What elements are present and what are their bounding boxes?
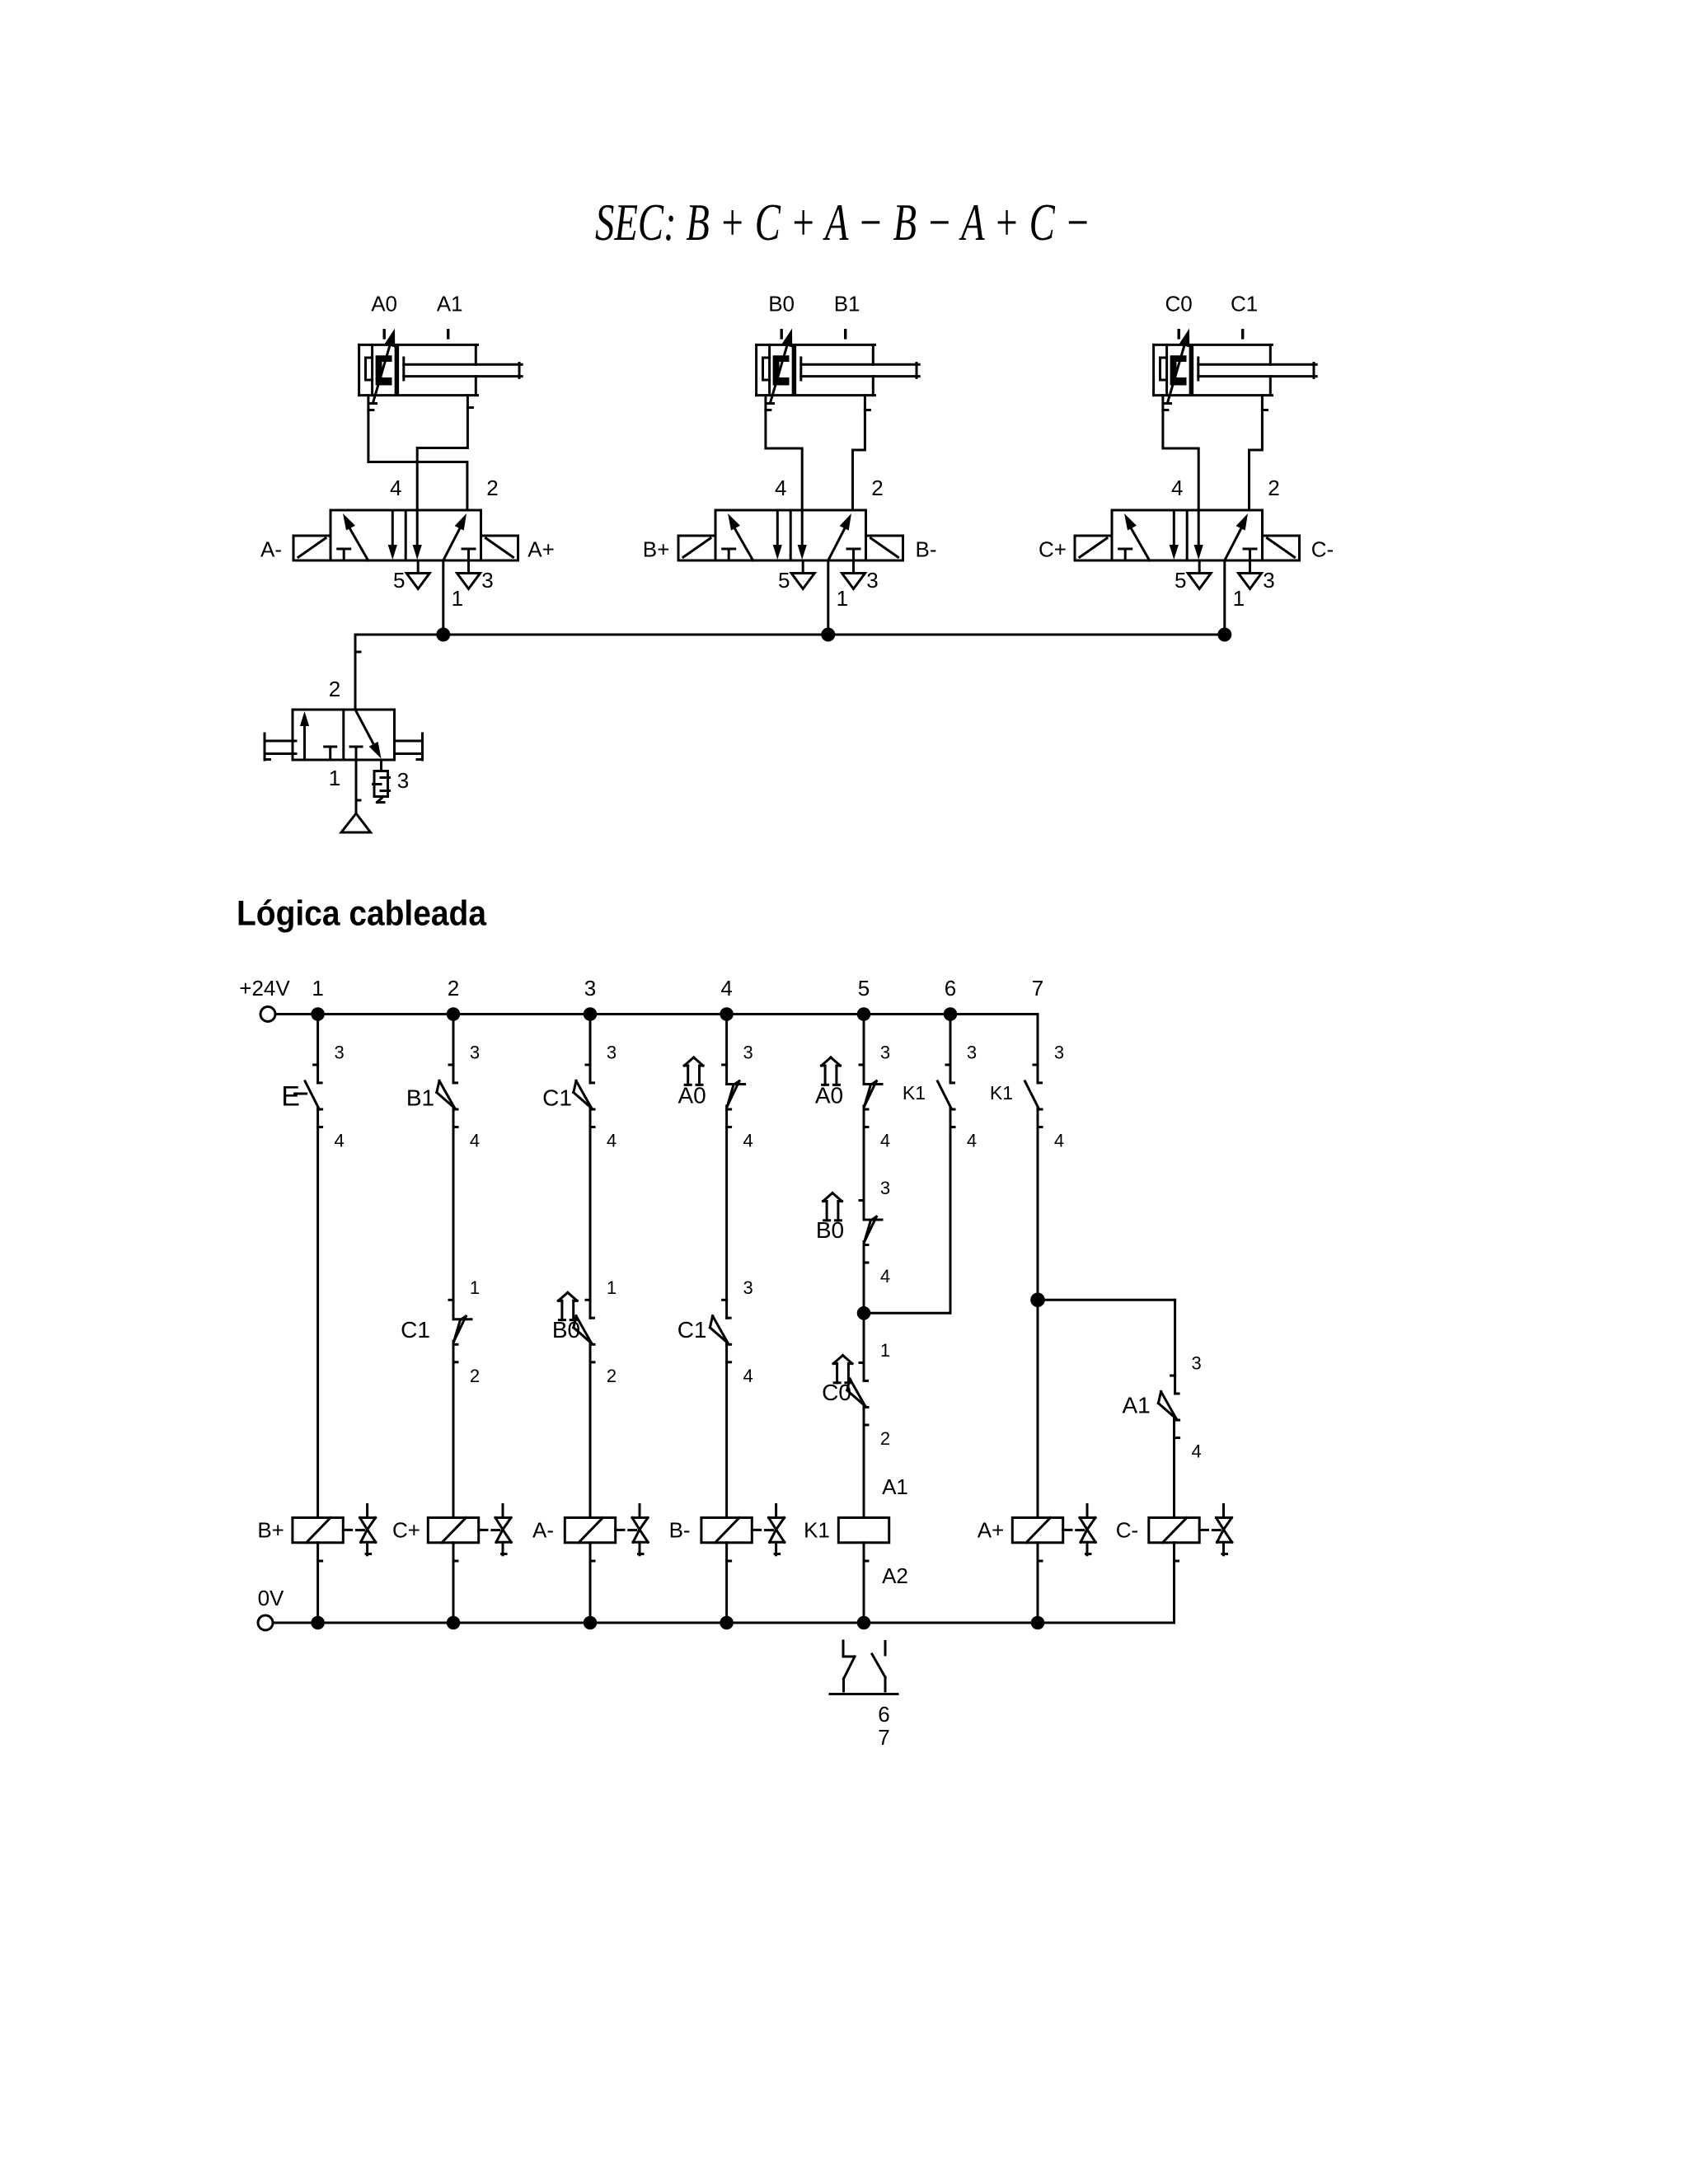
contact B1 normally open xyxy=(437,1065,457,1127)
valve VC left pilot C+ xyxy=(1075,536,1112,560)
valve VB exhaust port 3 xyxy=(842,560,865,589)
svg-text:B1: B1 xyxy=(834,292,860,316)
svg-text:1: 1 xyxy=(329,766,340,790)
coil C+ valve solenoid wire to 0V xyxy=(452,1543,455,1623)
valve VA left box exhaust arrow xyxy=(388,510,397,560)
wire rung 4 middle xyxy=(725,1106,728,1318)
valve VA right pilot A+ xyxy=(481,536,518,560)
sensor mark A0 xyxy=(383,330,386,338)
svg-text:3: 3 xyxy=(1191,1353,1201,1374)
svg-text:2: 2 xyxy=(871,476,883,500)
junction node rung 1 on 0V rail xyxy=(311,1616,325,1630)
junction node rung 7 on 0V rail xyxy=(1031,1616,1045,1630)
sensor mark B0 xyxy=(781,330,783,338)
wire rung 5 segment 2 xyxy=(863,1106,865,1220)
svg-text:B0: B0 xyxy=(768,292,795,316)
cylinder B magnetic piston xyxy=(773,355,790,385)
contact A1 normally open xyxy=(1158,1376,1179,1438)
coil A- valve solenoid wire to 0V xyxy=(589,1543,592,1623)
junction node valve VB port 1 xyxy=(821,628,835,642)
svg-text:4: 4 xyxy=(1171,476,1183,500)
valve VA left pilot A- xyxy=(293,536,331,560)
svg-text:1: 1 xyxy=(607,1277,617,1298)
junction node rung 1 on +24V rail xyxy=(311,1007,325,1021)
svg-text:1: 1 xyxy=(837,586,848,611)
contact C1 normally closed terminal numbers xyxy=(470,1277,480,1386)
svg-text:B0: B0 xyxy=(816,1217,844,1243)
contact A1 normally open terminal numbers xyxy=(1191,1353,1201,1462)
svg-text:B-: B- xyxy=(916,537,937,562)
junction node rung 5 and 6 xyxy=(857,1306,871,1320)
wire rung 5 upper xyxy=(863,1015,865,1085)
cylinder C magnetic piston xyxy=(1170,355,1187,385)
valve VC right box flow 1 to 2 arrow xyxy=(1225,513,1248,560)
coil A+ valve solenoid wire to 0V xyxy=(1037,1543,1039,1623)
svg-text:C1: C1 xyxy=(678,1317,707,1343)
coil C- valve solenoid wire to 0V xyxy=(1173,1543,1175,1623)
wire rung 5 lower xyxy=(863,1406,865,1517)
wire rung 7 upper xyxy=(1037,1015,1039,1083)
svg-text:3: 3 xyxy=(470,1043,480,1063)
coil B+ valve solenoid wire to 0V xyxy=(316,1543,319,1623)
svg-text:6: 6 xyxy=(878,1702,889,1727)
wire branch rung 7 to A1 xyxy=(1038,1300,1175,1394)
svg-text:2: 2 xyxy=(1268,476,1279,500)
svg-text:7: 7 xyxy=(878,1725,889,1750)
wire rung 3 middle xyxy=(589,1108,592,1319)
cylinder C adjustable cushioning arrow xyxy=(1165,329,1190,404)
svg-text:4: 4 xyxy=(720,976,732,1001)
valve VB left box flow arrow xyxy=(728,513,753,560)
contact K1 relay rung 6 terminal numbers xyxy=(967,1043,977,1151)
contact B0 normally closed actuated xyxy=(574,1300,594,1362)
svg-text:A0: A0 xyxy=(815,1083,843,1108)
coil C- valve solenoid xyxy=(1149,1518,1199,1562)
svg-text:1: 1 xyxy=(312,976,323,1001)
svg-text:4: 4 xyxy=(880,1266,890,1286)
valve VB right box port 3 blocked xyxy=(847,549,860,560)
valve V0 right box flow 2 to 3 arrow xyxy=(355,710,382,759)
contact K1 relay rung 7 xyxy=(1025,1065,1043,1127)
svg-text:A1: A1 xyxy=(882,1474,908,1499)
valve VB left box port blocked xyxy=(723,549,735,560)
svg-text:4: 4 xyxy=(775,476,786,500)
wire rung 1 upper xyxy=(316,1015,319,1083)
valve VC right box port 3 blocked xyxy=(1244,549,1256,560)
svg-text:0V: 0V xyxy=(258,1586,284,1610)
svg-text:C1: C1 xyxy=(401,1317,430,1343)
valve VB port labels xyxy=(775,476,884,611)
junction node rung 7 branch xyxy=(1030,1292,1045,1307)
valve V0 left box flow 1 to 2 arrow xyxy=(300,711,309,759)
svg-text:A0: A0 xyxy=(678,1083,706,1108)
svg-text:5: 5 xyxy=(778,568,790,593)
svg-text:3: 3 xyxy=(607,1043,617,1063)
valve VA exhaust port 3 xyxy=(457,560,481,589)
valve VB right box flow 1 to 2 arrow xyxy=(828,513,851,560)
svg-text:3: 3 xyxy=(397,768,409,793)
valve VA left box flow arrow xyxy=(343,513,368,560)
coil B+ valve solenoid xyxy=(293,1518,343,1562)
valve V0 3/2 supply body xyxy=(293,710,395,760)
junction node rung 3 on 0V rail xyxy=(584,1616,598,1630)
wire supply manifold xyxy=(355,635,1225,710)
valve VC left box exhaust arrow xyxy=(1170,510,1179,560)
wire cylinder C left port to valve VC port 4 xyxy=(1163,396,1198,510)
contact K1 relay rung 7 terminal numbers xyxy=(1054,1043,1064,1151)
svg-text:1: 1 xyxy=(880,1340,890,1361)
contact A0 normally open actuated actuated arrow xyxy=(684,1057,703,1085)
wire rung 1 lower xyxy=(316,1108,319,1518)
contact A0 normally open actuated terminal numbers xyxy=(743,1043,753,1151)
valve V0 port 1 air supply xyxy=(341,760,371,832)
cylinder A piston and rod xyxy=(396,347,522,395)
contact C1 normally closed xyxy=(449,1300,471,1362)
contact B0 normally open actuated rung 5 xyxy=(860,1201,882,1263)
svg-text:A+: A+ xyxy=(978,1518,1005,1543)
svg-text:A1: A1 xyxy=(1122,1393,1150,1418)
svg-text:C1: C1 xyxy=(1231,292,1258,316)
svg-text:5: 5 xyxy=(858,976,870,1001)
valve VA left box port blocked xyxy=(338,549,350,560)
svg-text:2: 2 xyxy=(329,677,340,701)
wire valve VA port 1 down xyxy=(442,560,444,635)
valve VC left box flow arrow xyxy=(1124,513,1150,560)
svg-text:2: 2 xyxy=(448,976,459,1001)
contact C1 normally open released terminal numbers xyxy=(743,1277,753,1386)
wire valve VB port 1 down xyxy=(827,560,829,635)
svg-text:C0: C0 xyxy=(1165,292,1192,316)
contact B0 normally closed actuated terminal numbers xyxy=(607,1277,617,1386)
svg-text:5: 5 xyxy=(393,568,405,593)
contact A0 normally open actuated rung 5 actuated arrow xyxy=(822,1057,841,1085)
valve VB body 5/2 xyxy=(715,510,866,560)
svg-text:4: 4 xyxy=(1191,1441,1201,1462)
relay K1 contact reference NC xyxy=(843,1641,855,1691)
contact C1 normally open released xyxy=(710,1300,730,1362)
junction node valve VC port 1 xyxy=(1217,628,1231,642)
svg-text:4: 4 xyxy=(334,1131,344,1151)
cylinder B adjustable cushioning arrow xyxy=(768,329,793,404)
junction node rung 4 on +24V rail xyxy=(720,1007,734,1021)
relay coil K1 wire to 0V xyxy=(863,1543,865,1623)
contact E emergency switch terminal numbers xyxy=(334,1043,344,1151)
valve VC port labels xyxy=(1171,476,1280,611)
valve VB right pilot B- xyxy=(866,536,903,560)
svg-text:B-: B- xyxy=(669,1518,691,1543)
svg-text:2: 2 xyxy=(470,1366,480,1386)
contact E emergency switch xyxy=(305,1065,322,1127)
valve VC left box port blocked xyxy=(1119,549,1132,560)
cylinder A body xyxy=(359,344,478,395)
wire rung 6 upper xyxy=(949,1015,952,1083)
valve VA body 5/2 xyxy=(331,510,481,560)
wire cylinder B left port to valve VB port 4 xyxy=(766,396,802,510)
junction node rung 3 on +24V rail xyxy=(584,1007,598,1021)
wire branch lower xyxy=(1173,1419,1175,1518)
svg-text:3: 3 xyxy=(743,1277,753,1298)
sensor mark C0 xyxy=(1177,330,1179,338)
junction node rung 4 on 0V rail xyxy=(720,1616,734,1630)
svg-text:3: 3 xyxy=(584,976,596,1001)
svg-text:A-: A- xyxy=(260,537,282,562)
svg-text:4: 4 xyxy=(607,1131,617,1151)
coil B- valve solenoid xyxy=(701,1518,752,1562)
svg-text:6: 6 xyxy=(945,976,956,1001)
coil A- valve solenoid solenoid indicator xyxy=(616,1505,649,1555)
svg-text:1: 1 xyxy=(470,1277,480,1298)
svg-text:4: 4 xyxy=(743,1366,753,1386)
wire rung 7 lower xyxy=(1037,1108,1039,1518)
svg-text:3: 3 xyxy=(866,568,878,593)
valve VA port labels xyxy=(390,476,499,611)
svg-text:4: 4 xyxy=(743,1131,753,1151)
contact B0 normally closed actuated actuated arrow xyxy=(558,1292,577,1319)
svg-text:3: 3 xyxy=(481,568,493,593)
svg-text:A-: A- xyxy=(532,1518,554,1543)
svg-text:C-: C- xyxy=(1116,1518,1138,1543)
svg-text:3: 3 xyxy=(743,1043,753,1063)
wire cylinder C right port to valve VC port 2 xyxy=(1250,396,1268,510)
valve V0 left return spring xyxy=(265,733,296,760)
svg-text:3: 3 xyxy=(880,1178,890,1198)
svg-text:B+: B+ xyxy=(643,537,670,562)
cylinder A adjustable cushioning arrow xyxy=(371,329,396,404)
coil C+ valve solenoid solenoid indicator xyxy=(479,1505,512,1555)
relay coil K1 xyxy=(838,1518,889,1562)
svg-text:SEC: B + C + A − B − A + C −: SEC: B + C + A − B − A + C − xyxy=(595,193,1090,251)
junction node rung 6 on +24V rail xyxy=(944,1007,958,1021)
cylinder A magnetic piston xyxy=(376,355,392,385)
contact B0 normally open actuated rung 5 terminal numbers xyxy=(880,1178,890,1286)
valve VA right box flow 4 to 5 arrow xyxy=(413,510,422,560)
contact B1 normally open terminal numbers xyxy=(470,1043,480,1151)
svg-text:4: 4 xyxy=(470,1131,480,1151)
svg-text:C1: C1 xyxy=(542,1085,572,1111)
svg-text:3: 3 xyxy=(967,1043,977,1063)
junction node valve VA port 1 xyxy=(436,628,450,642)
contact C0 normally closed actuated actuated arrow xyxy=(833,1356,852,1383)
svg-text:K1: K1 xyxy=(903,1082,926,1104)
valve VA exhaust port 5 xyxy=(406,560,429,589)
coil C+ valve solenoid xyxy=(428,1518,478,1562)
contact C1 normally open xyxy=(574,1065,594,1127)
svg-text:3: 3 xyxy=(1263,568,1274,593)
contact C0 normally closed actuated xyxy=(847,1363,868,1426)
sensor mark A1 xyxy=(447,330,449,338)
svg-text:B+: B+ xyxy=(257,1518,284,1543)
svg-text:2: 2 xyxy=(880,1428,890,1449)
coil B+ valve solenoid solenoid indicator xyxy=(343,1505,376,1555)
valve V0 port labels xyxy=(329,677,409,793)
svg-text:2: 2 xyxy=(486,476,498,500)
svg-text:4: 4 xyxy=(1054,1131,1064,1151)
wire rung 3 upper xyxy=(589,1015,592,1083)
wire rung 5 segment 3 xyxy=(863,1242,865,1381)
wire valve VC port 1 down xyxy=(1223,560,1226,635)
valve V0 left box port 3 blocked xyxy=(325,747,336,760)
valve V0 right return spring xyxy=(395,733,423,760)
mechanical link E xyxy=(295,1093,307,1095)
svg-text:7: 7 xyxy=(1032,976,1043,1001)
svg-text:4: 4 xyxy=(390,476,401,500)
svg-text:+24V: +24V xyxy=(239,976,290,1001)
valve VB left pilot B+ xyxy=(678,536,715,560)
wire cylinder B right port to valve VB port 2 xyxy=(853,396,870,510)
contact C0 normally closed actuated terminal numbers xyxy=(880,1340,890,1449)
junction node rung 5 on +24V rail xyxy=(857,1007,871,1021)
wire cylinder A right port to valve VA port 4 xyxy=(417,396,472,510)
junction node rung 2 on 0V rail xyxy=(447,1616,461,1630)
contact C1 normally open terminal numbers xyxy=(607,1043,617,1151)
svg-text:1: 1 xyxy=(452,586,463,611)
svg-text:K1: K1 xyxy=(990,1082,1013,1104)
wire rung 2 middle xyxy=(452,1108,455,1319)
junction node rung 2 on +24V rail xyxy=(447,1007,461,1021)
wire rung 6 to rung 5 junction xyxy=(864,1312,950,1315)
coil A+ valve solenoid solenoid indicator xyxy=(1063,1505,1096,1555)
contact A0 normally open actuated rung 5 xyxy=(860,1065,882,1127)
svg-text:K1: K1 xyxy=(804,1518,830,1543)
sensor mark C1 xyxy=(1241,330,1244,338)
svg-text:B0: B0 xyxy=(552,1317,580,1343)
svg-text:3: 3 xyxy=(1054,1043,1064,1063)
wire rung 3 lower xyxy=(589,1343,592,1518)
valve V0 port 3 silencer xyxy=(373,760,390,803)
svg-text:4: 4 xyxy=(967,1131,977,1151)
coil B- valve solenoid wire to 0V xyxy=(725,1543,728,1623)
coil B- valve solenoid solenoid indicator xyxy=(752,1505,785,1555)
svg-text:E: E xyxy=(281,1081,300,1113)
svg-text:C+: C+ xyxy=(1039,537,1067,562)
contact A0 normally open actuated xyxy=(723,1065,745,1127)
cylinder B piston and rod xyxy=(794,347,919,395)
svg-text:4: 4 xyxy=(880,1131,890,1151)
valve VC body 5/2 xyxy=(1112,510,1263,560)
power rail +24V xyxy=(260,1007,1038,1022)
wire cylinder A left port to valve VA port 2 xyxy=(368,396,467,510)
valve VC right box flow 4 to 5 arrow xyxy=(1194,510,1203,560)
valve VA right box flow 1 to 2 arrow xyxy=(443,513,467,560)
svg-text:Lógica cableada: Lógica cableada xyxy=(237,894,487,934)
svg-text:3: 3 xyxy=(880,1043,890,1063)
sensor mark B1 xyxy=(844,330,846,338)
cylinder C piston and rod xyxy=(1191,347,1316,395)
valve VB exhaust port 5 xyxy=(791,560,814,589)
coil A+ valve solenoid xyxy=(1012,1518,1062,1562)
cylinder C body xyxy=(1154,344,1273,395)
svg-text:A1: A1 xyxy=(437,292,463,316)
valve VC right pilot C- xyxy=(1263,536,1300,560)
cylinder B body xyxy=(757,344,875,395)
svg-text:A+: A+ xyxy=(527,537,555,562)
coil A- valve solenoid xyxy=(565,1518,615,1562)
contact A0 normally open actuated rung 5 terminal numbers xyxy=(880,1043,890,1151)
valve VC exhaust port 5 xyxy=(1188,560,1211,589)
svg-text:5: 5 xyxy=(1175,568,1186,593)
contact B0 normally open actuated rung 5 actuated arrow xyxy=(823,1193,842,1221)
valve VB left box exhaust arrow xyxy=(773,510,782,560)
wire rung 2 upper xyxy=(452,1015,455,1083)
valve V0 right box port 1 blocked xyxy=(350,747,362,760)
svg-text:A2: A2 xyxy=(882,1563,908,1588)
svg-text:C+: C+ xyxy=(392,1518,420,1543)
wire rung 4 upper xyxy=(725,1015,728,1085)
valve VB right box flow 4 to 5 arrow xyxy=(798,510,807,560)
junction node rung 5 on 0V rail xyxy=(857,1616,871,1630)
valve VA right box port 3 blocked xyxy=(462,549,475,560)
svg-text:B1: B1 xyxy=(406,1085,434,1111)
svg-text:2: 2 xyxy=(607,1366,617,1386)
relay K1 contact reference NO xyxy=(872,1642,885,1692)
valve VC exhaust port 3 xyxy=(1239,560,1262,589)
coil C- valve solenoid solenoid indicator xyxy=(1199,1505,1232,1555)
svg-text:C-: C- xyxy=(1311,537,1334,562)
wire rung 2 lower xyxy=(452,1341,455,1517)
svg-text:1: 1 xyxy=(1233,586,1245,611)
svg-text:C0: C0 xyxy=(822,1380,851,1405)
power rail 0V xyxy=(258,1543,1175,1630)
svg-text:3: 3 xyxy=(334,1043,344,1063)
wire rung 6 lower xyxy=(949,1108,952,1314)
relay K1 contact reference baseline xyxy=(830,1693,898,1695)
svg-text:A0: A0 xyxy=(371,292,397,316)
contact K1 relay rung 6 xyxy=(938,1065,955,1127)
wire rung 4 lower xyxy=(725,1343,728,1518)
